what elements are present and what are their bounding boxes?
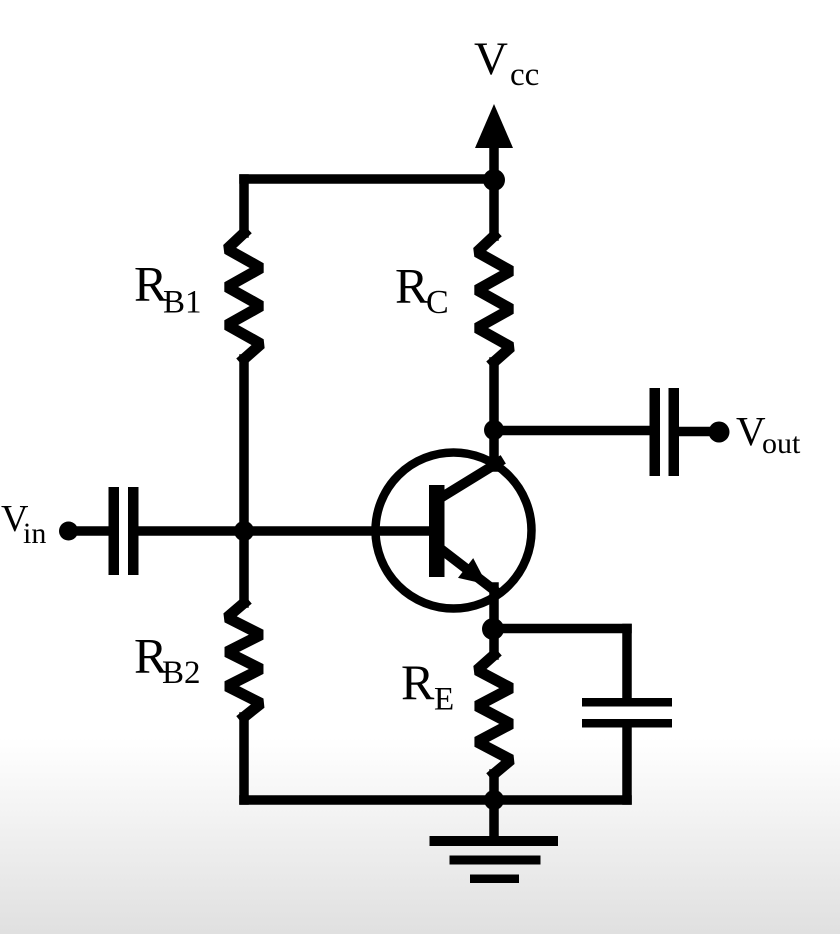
wire vin stub xyxy=(70,526,107,536)
wire base xyxy=(140,526,430,536)
node Vcc junction xyxy=(483,169,505,191)
node base junction xyxy=(234,521,254,541)
capacitor CE bottom plate xyxy=(582,719,672,728)
capacitor Cout left plate xyxy=(650,388,661,476)
wire left rail lower lead xyxy=(239,717,249,800)
transistor Q1 collector diagonal xyxy=(442,462,499,497)
resistor RE xyxy=(477,655,511,774)
wire bypass branch upper xyxy=(622,629,632,699)
svg-text:E: E xyxy=(434,682,454,718)
svg-text:R: R xyxy=(395,258,429,314)
ground bar 3 xyxy=(470,875,519,884)
wire ground stub xyxy=(489,800,499,839)
transistor Q1 circle xyxy=(376,453,532,609)
resistor RC xyxy=(477,236,511,362)
terminal vin dot xyxy=(59,522,78,541)
wire left rail mid xyxy=(239,359,249,603)
ground bar 1 xyxy=(430,836,559,846)
wire collector stub xyxy=(489,430,499,467)
wire RE bottom lead xyxy=(489,774,499,800)
power Vcc arrowhead xyxy=(475,104,513,148)
ground bar 2 xyxy=(450,856,541,865)
wire RC top lead xyxy=(489,180,499,236)
terminal vout dot xyxy=(709,422,730,443)
transistor Q1 emitter arrowhead xyxy=(458,558,487,584)
capacitor Cout right plate xyxy=(669,388,680,476)
svg-text:B2: B2 xyxy=(162,655,201,691)
node ground junction xyxy=(484,790,504,810)
svg-text:R: R xyxy=(401,654,435,710)
svg-text:out: out xyxy=(762,427,801,460)
wire left rail upper lead xyxy=(239,179,249,233)
wire RC bottom lead xyxy=(489,362,499,430)
resistor RB2 xyxy=(227,603,261,717)
transistor Q1 emitter diagonal xyxy=(442,550,494,590)
wire RE top lead xyxy=(489,629,499,655)
transistor Q1 base bar xyxy=(429,485,445,577)
node emitter junction xyxy=(482,618,504,640)
resistor RB1 xyxy=(227,233,261,359)
svg-text:V: V xyxy=(474,33,508,85)
wire Vcc shaft xyxy=(489,143,499,182)
svg-text:cc: cc xyxy=(510,57,539,93)
wire vout stub xyxy=(680,427,714,437)
wire collector output xyxy=(494,426,648,436)
wire bottom rail xyxy=(244,795,627,805)
svg-text:in: in xyxy=(23,517,46,550)
node collector junction xyxy=(484,420,504,440)
capacitor Cin right plate xyxy=(128,487,139,575)
wire emitter to bypass branch xyxy=(493,624,627,634)
wire top rail xyxy=(244,174,494,184)
capacitor CE top plate xyxy=(582,698,672,707)
wire emitter stub xyxy=(489,587,499,629)
svg-text:B1: B1 xyxy=(163,285,202,321)
svg-text:C: C xyxy=(426,284,449,321)
wire bypass branch lower xyxy=(622,728,632,801)
capacitor Cin left plate xyxy=(109,487,120,575)
